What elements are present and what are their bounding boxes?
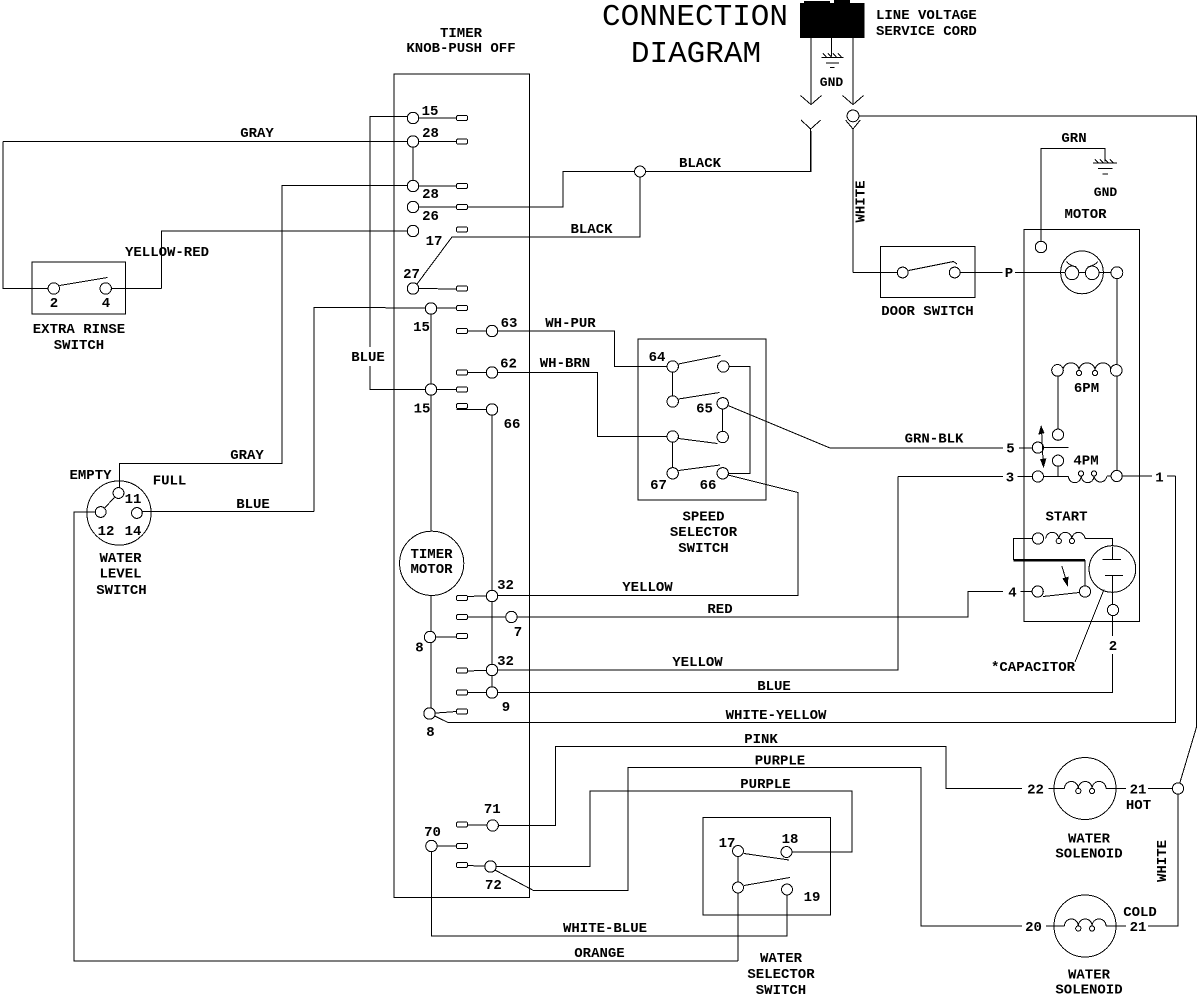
svg-text:EMPTY: EMPTY: [69, 468, 112, 484]
svg-text:WATER: WATER: [760, 951, 803, 967]
svg-text:71: 71: [484, 802, 501, 818]
svg-text:PURPLE: PURPLE: [755, 754, 805, 770]
wire WHITE-BLUE: timer 70 to water selector 19: [431, 846, 787, 937]
svg-text:BLUE: BLUE: [351, 350, 385, 366]
winding START: [1032, 510, 1112, 547]
svg-text:20: 20: [1025, 920, 1042, 936]
svg-text:SWITCH: SWITCH: [678, 541, 728, 557]
svg-text:ORANGE: ORANGE: [574, 946, 624, 962]
svg-text:18: 18: [782, 832, 799, 848]
svg-text:70: 70: [424, 825, 441, 841]
svg-text:RED: RED: [707, 602, 732, 618]
svg-text:WH-BRN: WH-BRN: [540, 356, 590, 372]
wire PURPLE: timer 72 to water selector 18: [491, 777, 853, 867]
winding 6PM: [1052, 363, 1122, 397]
svg-text:GRN: GRN: [1061, 131, 1086, 147]
svg-text:17: 17: [719, 836, 736, 852]
svg-text:72: 72: [485, 878, 502, 894]
svg-text:GRN-BLK: GRN-BLK: [905, 432, 964, 448]
door switch: [853, 247, 1066, 321]
wire timer 15b to blue riser: [314, 308, 457, 512]
svg-text:26: 26: [422, 209, 439, 225]
svg-text:FULL: FULL: [153, 474, 187, 490]
svg-text:COLD: COLD: [1123, 905, 1157, 921]
svg-text:32: 32: [497, 654, 514, 670]
svg-text:SPEED: SPEED: [682, 510, 724, 526]
svg-text:22: 22: [1027, 783, 1044, 799]
svg-text:SWITCH: SWITCH: [756, 983, 806, 997]
svg-text:4: 4: [102, 296, 110, 312]
svg-text:11: 11: [125, 492, 142, 508]
svg-text:BLACK: BLACK: [679, 156, 722, 172]
svg-text:12: 12: [98, 524, 115, 540]
wire YELLOW: timer 32b to motor 3: [457, 477, 899, 672]
svg-text:SWITCH: SWITCH: [96, 583, 146, 599]
svg-text:BLACK: BLACK: [570, 222, 613, 238]
wire WH-BRN: timer 62 to speed selector: [457, 356, 668, 437]
motor ground terminal: [1035, 241, 1046, 252]
timer box KNOB-PUSH OFF: [394, 26, 530, 898]
wire GRN: motor to ground: [1041, 131, 1105, 242]
svg-text:BLUE: BLUE: [236, 497, 270, 513]
connector fork L: [801, 120, 821, 172]
svg-text:9: 9: [502, 700, 510, 716]
svg-text:7: 7: [514, 625, 522, 641]
svg-text:SWITCH: SWITCH: [54, 338, 104, 354]
wire timer 70 stub link: [431, 845, 456, 847]
svg-text:SOLENOID: SOLENOID: [1055, 847, 1122, 863]
ground GND (motor): [1093, 160, 1117, 201]
wire plug ground lead: [831, 38, 833, 57]
water solenoid COLD: [1025, 895, 1157, 997]
svg-text:DIAGRAM: DIAGRAM: [631, 37, 761, 72]
svg-text:14: 14: [125, 524, 142, 540]
svg-text:66: 66: [504, 417, 521, 433]
node white junction at plug: [847, 110, 859, 122]
svg-text:GND: GND: [820, 75, 844, 90]
svg-text:67: 67: [650, 478, 667, 494]
svg-text:4: 4: [1008, 586, 1016, 602]
title CONNECTION DIAGRAM: [602, 0, 788, 72]
label LINE VOLTAGE SERVICE CORD: [876, 8, 977, 40]
wire PURPLE: timer 72 to cold solenoid 20: [493, 754, 1055, 927]
wire timer 8b stub link: [430, 712, 457, 714]
wire BLUE: timer 9 to capacitor 2: [457, 610, 1118, 695]
speed selector switch: [638, 339, 766, 557]
svg-text:28: 28: [422, 126, 439, 142]
motor terminal P-right and vertical bus: [1111, 267, 1123, 476]
svg-text:MOTOR: MOTOR: [1064, 207, 1107, 223]
node white junction at hot solenoid: [1172, 783, 1183, 794]
svg-text:HOT: HOT: [1126, 798, 1151, 814]
svg-text:28: 28: [422, 187, 439, 203]
ground GND (service cord): [820, 54, 844, 91]
timer terminal number labels: [403, 104, 522, 894]
wire BLUE vertical (timer internal 15a-15c): [351, 117, 456, 390]
svg-text:15: 15: [422, 104, 439, 120]
wire line lead L (black) with arrow: [801, 38, 822, 105]
wire BLACK lower: junction to timer 27: [416, 172, 641, 286]
timer terminal stubs: [457, 116, 468, 868]
water selector switch: [703, 818, 831, 997]
svg-text:TIMER: TIMER: [440, 26, 483, 42]
svg-text:GRAY: GRAY: [240, 126, 274, 142]
svg-text:GND: GND: [1094, 185, 1118, 200]
water solenoid HOT: [1027, 758, 1172, 863]
svg-text:27: 27: [403, 267, 420, 283]
svg-text:21: 21: [1130, 920, 1147, 936]
svg-text:62: 62: [500, 357, 517, 373]
svg-text:YELLOW-RED: YELLOW-RED: [125, 245, 209, 261]
svg-text:1: 1: [1155, 471, 1163, 487]
motor protector (on P line): [1061, 251, 1111, 294]
wire timer main vertical 15b-8b: [430, 309, 432, 714]
svg-text:KNOB-PUSH OFF: KNOB-PUSH OFF: [406, 41, 515, 57]
svg-text:66: 66: [700, 478, 717, 494]
svg-text:8: 8: [415, 641, 423, 657]
capacitor: [1089, 546, 1136, 616]
timer terminal link wires: [419, 118, 457, 289]
svg-text:WHITE-YELLOW: WHITE-YELLOW: [726, 708, 827, 724]
wire ORANGE: water level 12 to water selector: [74, 512, 738, 962]
wire PINK: timer 71 to hot solenoid 22: [493, 732, 1055, 825]
wire GRAY lower: water level to timer 28b: [120, 186, 414, 488]
svg-text:WATER: WATER: [99, 551, 142, 567]
wire YELLOW: timer 32a to speed selector 66: [457, 475, 799, 597]
svg-text:4PM: 4PM: [1073, 454, 1098, 470]
svg-text:WH-PUR: WH-PUR: [545, 316, 596, 332]
svg-text:2: 2: [1109, 639, 1117, 655]
motor box: [1024, 207, 1140, 622]
svg-text:WHITE: WHITE: [1155, 840, 1171, 882]
wire YELLOW-RED: extra rinse 4 to timer 17: [111, 231, 413, 289]
svg-text:64: 64: [649, 350, 666, 366]
connector fork N: [846, 120, 861, 272]
wire WH-PUR: timer 63 to speed selector 64: [457, 316, 668, 367]
wire left vertical to extra rinse: [3, 142, 49, 289]
water level switch: [69, 468, 186, 599]
svg-text:WHITE: WHITE: [854, 180, 870, 222]
svg-text:19: 19: [804, 890, 821, 906]
extra rinse switch: [32, 262, 126, 354]
svg-text:PURPLE: PURPLE: [740, 777, 790, 793]
svg-text:2: 2: [50, 296, 58, 312]
svg-text:YELLOW: YELLOW: [622, 580, 673, 596]
svg-text:P: P: [1005, 266, 1013, 282]
svg-text:SELECTOR: SELECTOR: [747, 967, 815, 983]
wire BLACK upper: plug to timer 26: [419, 131, 811, 207]
wire GRN-BLK: speed selector 65 to motor 5: [728, 406, 1033, 449]
svg-text:15: 15: [413, 320, 430, 336]
svg-text:SOLENOID: SOLENOID: [1055, 983, 1122, 997]
timer terminal circles: [407, 112, 517, 872]
motor centrifugal switch 4: [1008, 539, 1090, 602]
wire WHITE from line to right edge and down: [853, 116, 1197, 784]
line voltage service cord plug: [800, 0, 865, 38]
svg-text:SELECTOR: SELECTOR: [670, 525, 738, 541]
node black junction: [635, 166, 646, 177]
svg-text:63: 63: [501, 316, 518, 332]
svg-text:LEVEL: LEVEL: [99, 567, 141, 583]
svg-text:6PM: 6PM: [1074, 381, 1099, 397]
timer motor: [400, 531, 464, 595]
svg-text:DOOR SWITCH: DOOR SWITCH: [881, 304, 973, 320]
svg-text:EXTRA RINSE: EXTRA RINSE: [33, 322, 125, 338]
wire timer 72 stub link: [457, 865, 491, 867]
svg-text:32: 32: [497, 578, 514, 594]
svg-text:17: 17: [426, 234, 443, 250]
svg-text:SERVICE CORD: SERVICE CORD: [876, 24, 977, 40]
svg-text:BLUE: BLUE: [757, 679, 791, 695]
svg-text:8: 8: [426, 725, 434, 741]
svg-text:WHITE-BLUE: WHITE-BLUE: [563, 921, 647, 937]
svg-text:3: 3: [1006, 471, 1014, 487]
wire BLUE: water level 14 to timer 15b riser: [143, 497, 315, 513]
svg-text:MOTOR: MOTOR: [410, 562, 453, 578]
wire line lead N (white) with arrow: [843, 38, 864, 105]
svg-text:START: START: [1045, 510, 1087, 526]
svg-text:5: 5: [1006, 442, 1014, 458]
wire timer 71 stub link: [457, 824, 493, 827]
wire motor 3 with 4PM winding: [898, 454, 1176, 487]
svg-text:LINE VOLTAGE: LINE VOLTAGE: [876, 8, 977, 24]
wire WHITE-YELLOW: timer 8b to motor 1: [430, 476, 1176, 724]
wire timer 8a stub link: [430, 636, 457, 638]
svg-text:GRAY: GRAY: [230, 448, 264, 464]
svg-text:PINK: PINK: [744, 732, 778, 748]
wire timer 66-32 vertical: [457, 410, 493, 693]
svg-text:YELLOW: YELLOW: [672, 655, 723, 671]
svg-text:65: 65: [696, 402, 713, 418]
wire WHITE: right side down to cold solenoid: [1148, 794, 1178, 926]
wire GRAY upper: left edge to timer 28a: [3, 126, 413, 142]
svg-text:15: 15: [414, 402, 431, 418]
svg-text:CONNECTION: CONNECTION: [602, 0, 788, 35]
label *CAPACITOR with pointer: [991, 590, 1104, 677]
svg-text:TIMER: TIMER: [410, 547, 453, 563]
wire timer 28a to 28b: [412, 144, 414, 186]
svg-text:WATER: WATER: [1068, 832, 1111, 848]
wire RED: timer 7 to motor 4: [457, 592, 1033, 619]
svg-text:21: 21: [1130, 783, 1147, 799]
svg-text:*CAPACITOR: *CAPACITOR: [991, 660, 1076, 676]
motor speed contacts 5: [1006, 376, 1068, 476]
svg-text:WATER: WATER: [1068, 968, 1111, 984]
